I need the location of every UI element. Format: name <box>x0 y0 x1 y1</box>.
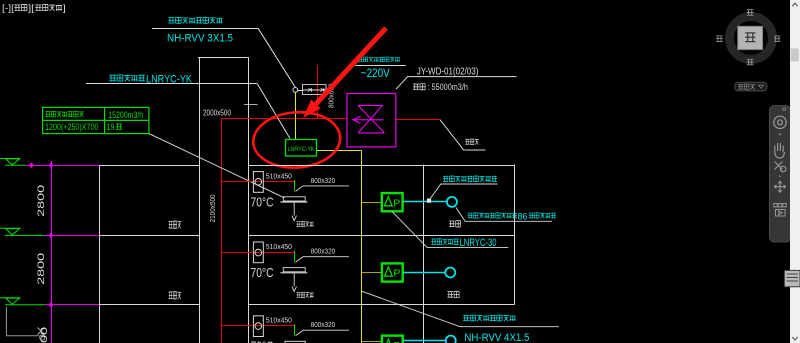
wire: red horizontal right of valve <box>396 119 440 121</box>
svg-text:][: ][ <box>28 3 34 14</box>
relief valve bowtie symbol <box>353 105 385 132</box>
leader underline NH-RVV 3X1.5 <box>152 28 258 30</box>
floor line 3 right section <box>249 304 515 306</box>
svg-text:2800: 2800 <box>36 185 46 217</box>
svg-text:00: 00 <box>39 327 49 343</box>
staircase label 1 <box>169 221 173 228</box>
annotation arrow (red) <box>316 28 386 104</box>
wire: magenta floor line 2 <box>45 235 100 237</box>
navigation bar <box>770 106 791 243</box>
fire damper FD2 70C <box>253 242 263 263</box>
svg-text:800x320: 800x320 <box>311 249 336 256</box>
compass N <box>747 10 754 16</box>
wire: red main horizontal <box>222 118 347 120</box>
junction diamond floor 1 <box>29 162 54 168</box>
wire: red branch 2 <box>222 252 295 254</box>
compass E <box>774 36 781 42</box>
svg-text:70°C: 70°C <box>251 265 274 280</box>
dimension 2800 lower <box>36 253 46 285</box>
svg-text:2800: 2800 <box>36 253 46 285</box>
svg-text:19: 19 <box>107 122 115 132</box>
label front room branch 2 <box>297 292 301 297</box>
wire: white floor line 2 left section <box>100 235 200 237</box>
svg-text:1200(+250)X700: 1200(+250)X700 <box>45 122 99 132</box>
duct size label 2100x500 (vertical) <box>210 194 217 222</box>
svg-text:800x320: 800x320 <box>311 178 336 185</box>
leader underline 2 <box>456 208 552 222</box>
fire damper FD3 70C <box>253 316 263 337</box>
side tab widget <box>784 270 800 286</box>
leader for bottom cable note <box>361 291 559 327</box>
svg-text:[-][: [-][ <box>2 3 14 14</box>
wire: circle to actuator <box>298 90 303 92</box>
level marker floor 1 <box>0 159 25 166</box>
wire: yellow control riser <box>361 151 363 343</box>
steering wheel icon <box>774 116 786 128</box>
duct top cap <box>198 57 248 59</box>
wall line x=99.6 <box>99 165 101 343</box>
damper actuator box <box>303 85 326 95</box>
svg-text:70°C: 70°C <box>251 339 274 343</box>
corridor pressure point 1 <box>447 197 457 207</box>
wire: yellow drop from circle <box>295 92 297 139</box>
duct left wall <box>199 57 201 343</box>
wire: magenta floor line 3 <box>45 304 100 306</box>
wire: yellow from controller to riser <box>317 150 362 152</box>
floor line 1 right section <box>249 165 515 167</box>
label: from residual-pressure controller (cyan) <box>168 18 174 23</box>
svg-text:70°C: 70°C <box>251 194 274 209</box>
wall corridor right x=514.5 <box>514 165 516 305</box>
svg-text:800x320: 800x320 <box>311 322 336 329</box>
pan hand icon <box>775 143 785 158</box>
wire: yellow stub to sensor 1 <box>361 202 381 204</box>
wire: yellow stub to sensor 3 <box>361 341 382 343</box>
svg-text:2100x500: 2100x500 <box>210 194 217 222</box>
duct right wall <box>248 57 250 343</box>
wire: green tap branch 1 <box>294 180 296 191</box>
air outlet grille branch 2 <box>280 268 307 292</box>
orbit icon <box>775 181 786 192</box>
wire: red branch 1 <box>222 181 295 183</box>
pressure sensor dP3 <box>382 336 403 343</box>
leader 800x320 branch 3 <box>296 330 349 336</box>
label: differential pressure controller LNRYC-30 <box>431 239 436 244</box>
underline 220V <box>355 65 406 67</box>
svg-text:15200m3/h: 15200m3/h <box>108 110 143 120</box>
svg-text:JY-WD-01(02/03): JY-WD-01(02/03) <box>417 66 479 77</box>
ViewCube compass ring <box>730 17 773 60</box>
leader from table to outlet <box>149 134 285 198</box>
svg-text:NH-RVV 3X1.5: NH-RVV 3X1.5 <box>167 32 233 44</box>
wire: white floor line 3 left section <box>100 304 200 306</box>
outlet data table <box>43 107 149 133</box>
controller box LNRYC-YK <box>286 140 317 157</box>
svg-text:]: ] <box>63 3 66 14</box>
wire: cyan to corridor sensor 3 <box>403 340 446 342</box>
label: relief valve actuator (cyan) <box>358 57 363 61</box>
leader 800x320 branch 2 <box>296 257 349 263</box>
level marker floor 2 <box>0 228 45 235</box>
svg-text:~220V: ~220V <box>361 66 390 80</box>
label: controller LNRYC-YK <box>109 75 116 81</box>
level marker floor 3 <box>0 298 45 305</box>
gray L pipe bottom-left <box>6 307 39 336</box>
staircase label 2 <box>169 292 173 299</box>
leader underline 1 <box>429 184 498 200</box>
table row1: motorized louver outlet | 15200m3/h <box>45 112 50 117</box>
leader underline LNRYC-YK <box>86 83 257 85</box>
air outlet grille branch 1 <box>280 197 307 221</box>
scrollbar track <box>790 0 800 343</box>
leader diagonal to actuator circle <box>258 28 295 87</box>
label corridor 2 <box>447 292 453 298</box>
label: pressure tap leads to corridor (cyan) <box>443 176 448 181</box>
svg-text:510x450: 510x450 <box>266 318 292 325</box>
svg-text:LNRYC-YK: LNRYC-YK <box>288 146 316 153</box>
junction diamond floor 3 <box>49 302 54 308</box>
wire: yellow stub to sensor 2 <box>361 272 382 274</box>
svg-text:510x450: 510x450 <box>266 173 292 180</box>
wire: magenta riser x=51 <box>51 161 53 343</box>
pressure sensor dP2 <box>382 263 403 281</box>
wire: red vertical to actuator <box>317 65 319 119</box>
dimension 2800 upper <box>36 185 46 217</box>
stray tick <box>244 104 258 106</box>
junction dot on cyan line <box>427 199 431 203</box>
compass W <box>716 36 723 42</box>
airflow label 55000m3/h <box>413 84 419 89</box>
unnamed view button <box>735 82 767 91</box>
break symbol X <box>38 328 45 341</box>
junction diamond floor 2 <box>49 232 54 238</box>
label: to staircase <box>465 139 469 144</box>
zoom icon <box>775 162 787 172</box>
leader line fan tag <box>396 77 517 90</box>
wire: white floor line 1 left section <box>100 165 200 167</box>
actuator circle <box>293 88 298 93</box>
corridor pressure point 2 <box>445 268 455 278</box>
showmotion icon <box>774 204 786 217</box>
svg-text:P: P <box>393 268 400 280</box>
svg-text:P: P <box>393 197 400 209</box>
wire: red riser <box>221 118 223 343</box>
label front room branch 1 <box>297 222 301 227</box>
air outlet grille branch 3 (cut) <box>285 341 305 343</box>
leader diagonal to LNRYC-YK box <box>257 84 290 139</box>
leader 800x320 branch 1 <box>296 186 349 192</box>
annotation ellipse (red) <box>251 109 342 170</box>
label: led from damper control box (cyan) <box>463 315 469 320</box>
ViewCube top face <box>738 26 763 49</box>
leader for LNRYC-30 <box>392 211 508 247</box>
wire: green tap branch 2 <box>294 251 296 262</box>
svg-text:86: 86 <box>518 211 528 221</box>
corridor pressure point 3 <box>446 336 456 343</box>
svg-text:NH-RVV 4X1.5: NH-RVV 4X1.5 <box>464 332 529 343</box>
leader to staircase <box>440 120 486 150</box>
wire: cyan to corridor sensor 1 <box>403 201 447 203</box>
duct size 800x630 (vertical) <box>329 83 336 108</box>
wire: red branch 3 <box>222 325 295 327</box>
svg-text:2000x500: 2000x500 <box>203 108 231 117</box>
fire damper FD1 70C <box>253 172 263 193</box>
wire: magenta floor line 1 <box>25 165 99 167</box>
pressure sensor dP1 <box>382 193 403 211</box>
floor line 2 right section <box>249 235 515 237</box>
pressure relief valve box <box>347 94 396 147</box>
svg-text:: 55000m3/h: : 55000m3/h <box>428 82 468 93</box>
label: install 86-type panel at tap end (cyan) <box>468 213 473 218</box>
dimension text cut at bottom <box>39 327 49 343</box>
wire: cyan to corridor sensor 2 <box>403 272 445 274</box>
scrollbar thumb <box>791 49 799 62</box>
compass S <box>747 59 754 65</box>
svg-text:510x450: 510x450 <box>266 244 292 251</box>
label corridor 1 <box>449 221 455 227</box>
wall corridor left x=423 <box>423 165 425 343</box>
wire: green tap branch 3 <box>294 324 296 335</box>
